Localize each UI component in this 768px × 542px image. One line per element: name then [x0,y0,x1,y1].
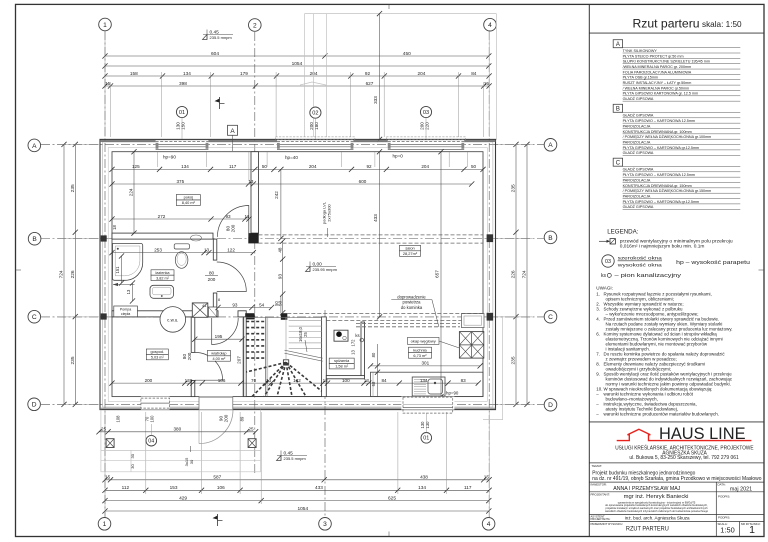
svg-text:13: 13 [364,378,370,383]
dimension chain left col2 235/226/235 [70,142,78,407]
dimension chain top row2 1054 [102,61,491,69]
svg-text:okap węglowy: okap węglowy [411,339,436,344]
svg-text:–: – [596,402,599,407]
svg-text:220: 220 [425,122,430,130]
north arrow bottom [213,514,223,526]
svg-text:204: 204 [417,71,425,76]
svg-text:134: 134 [418,485,426,490]
svg-text:PODPIS:: PODPIS: [718,515,730,519]
axis circle C left [28,310,41,323]
bathtub drain arrow [113,283,135,286]
svg-text:50: 50 [471,164,477,169]
axis circle A right [544,139,557,152]
svg-text:93: 93 [277,274,282,280]
svg-text:hp=0: hp=0 [393,154,404,159]
svg-text:200: 200 [208,277,216,282]
svg-text:13: 13 [248,179,254,184]
svg-text:hp – wysokość parapetu: hp – wysokość parapetu [676,260,750,266]
legend window symbol [602,255,750,268]
cwu boiler circle [160,307,186,333]
dim 301 kitchen [368,361,483,369]
kitchen sink [412,377,445,396]
wiatrolap label [207,350,230,361]
svg-text:272: 272 [158,214,166,219]
entrance door arc [199,410,233,444]
svg-text:242: 242 [274,191,279,199]
svg-text:224: 224 [129,188,134,196]
svg-text:– pion kanalizacyjny: – pion kanalizacyjny [615,273,682,279]
svg-text:13: 13 [351,350,356,355]
dim 48/93/50 hall [277,239,285,316]
svg-text:UWAGI:: UWAGI: [596,286,613,291]
svg-text:1: 1 [749,524,755,536]
svg-text:195: 195 [215,334,223,339]
svg-text:01: 01 [179,110,185,116]
dim 50 rot above C [274,296,281,313]
window mark circle 03 [420,106,432,129]
svg-text:13: 13 [323,378,329,383]
svg-text:03: 03 [605,259,611,265]
svg-text:PŁYTA GIPSOWO – KARTONOWA 12.5: PŁYTA GIPSOWO – KARTONOWA 12.5mm [623,119,695,123]
svg-text:13: 13 [126,289,131,294]
dimension chain left col1 724 [59,142,67,407]
axis circle B right [544,231,557,244]
svg-text:625: 625 [388,495,396,501]
right extension lines [496,144,532,404]
wall layers table A [613,40,740,101]
svg-text:106: 106 [218,378,226,383]
axis circle D right [544,398,557,411]
svg-text:–: – [596,392,599,397]
wall pilasters [101,234,493,320]
svg-text:wiatrołap: wiatrołap [211,352,226,356]
svg-text:380: 380 [173,427,181,432]
svg-text:15: 15 [105,475,111,480]
axis line B [41,238,544,240]
svg-text:207: 207 [236,356,241,364]
svg-text:433: 433 [373,214,378,222]
axis line C [41,316,544,318]
legend vent symbol [599,239,733,249]
svg-text:PAROIZOLACJA: PAROIZOLACJA [623,178,651,182]
podloga LVL note [321,201,331,237]
svg-text:25: 25 [303,332,308,337]
axis circle B left [28,232,41,245]
interior chain 253/13/122 [109,247,256,255]
svg-text:235: 235 [70,356,76,364]
axis circle 1 top [99,18,112,31]
extension lines bottom [105,412,489,516]
svg-text:TYNK SILIKONOWY: TYNK SILIKONOWY [623,49,658,53]
window 01 top wall [156,140,209,151]
svg-text:PŁYTA STEICO PROTECT gr.50 mm: PŁYTA STEICO PROTECT gr.50 mm [623,54,684,58]
bathtub [112,244,142,281]
svg-text:30: 30 [130,453,135,458]
wall tag A box [228,125,238,151]
svg-text:398: 398 [179,81,187,86]
dimension chain bottom row2 [102,485,491,493]
axis circle 4 top [484,18,497,31]
pokoj label [176,195,200,206]
title Rzut parteru [589,17,764,34]
hp=90 kitchen [446,391,459,396]
left extension lines [58,144,99,404]
door lazienka arc [217,262,247,292]
svg-text:724: 724 [522,270,528,278]
svg-text:FOLIA PAROIZOLACYJNA ALUMINIOW: FOLIA PAROIZOLACYJNA ALUMINIOWA [623,70,692,74]
okap weglowy label [408,337,460,348]
svg-text:1: 1 [103,22,107,29]
svg-text:179: 179 [240,71,248,76]
axis circle A left [28,139,41,152]
svg-text:hp=40: hp=40 [285,155,298,160]
svg-text:3: 3 [323,521,327,528]
svg-text:226: 226 [70,270,76,278]
interior chain row y169 [109,164,485,172]
svg-text:PAROIZOLACJA: PAROIZOLACJA [623,194,651,198]
svg-text:PRZEDMIOT RYSUNKU:: PRZEDMIOT RYSUNKU: [591,522,624,526]
svg-text:2: 2 [253,22,257,29]
svg-text:A: A [230,128,235,135]
window mark circle 01 [176,106,188,129]
washbasin [150,285,174,298]
svg-text:6,73 m²: 6,73 m² [413,353,427,358]
svg-text:1,58 m²: 1,58 m² [335,365,349,369]
window leader lines [182,118,426,139]
svg-text:szerokość okna: szerokość okna [618,255,663,260]
door pokoj arc [217,206,248,237]
panel divider [588,4,590,536]
svg-text:02: 02 [312,111,318,117]
svg-text:3.: 3. [596,307,600,312]
svg-text:93: 93 [225,214,231,219]
svg-text:A: A [548,142,553,149]
svg-text:1:50: 1:50 [720,525,734,534]
north arrow top [215,97,225,109]
window sills dashed [276,137,466,140]
svg-text:gospod.: gospod. [151,350,165,354]
svg-text:587: 587 [213,475,221,480]
porch steps [101,410,261,472]
dimension chain right col2 724 [522,142,530,407]
svg-text:1.: 1. [596,292,600,297]
svg-text:204: 204 [421,164,429,169]
uwagi notes text [596,292,733,417]
floor air channel dashed [287,313,483,326]
svg-text:450: 450 [403,51,411,57]
axis circle 2 top [249,19,262,32]
svg-text:pokój: pokój [184,195,193,200]
bottom interior chain [109,378,481,386]
axis circle 4 bottom [482,518,495,531]
dim 8 tiny [218,298,220,302]
svg-text:c.w.u.: c.w.u. [167,317,178,322]
svg-text:122: 122 [227,247,235,252]
axis circle 3 bottom [319,518,332,531]
svg-text:48: 48 [277,247,282,253]
svg-text:/ WEŁNA MINERALNA PAROC gr.50m: / WEŁNA MINERALNA PAROC gr.50mm [623,86,690,90]
svg-text:130: 130 [425,421,430,429]
svg-text:do kominka: do kominka [401,305,423,310]
svg-text:Rzut parteru: Rzut parteru [632,17,699,31]
svg-text:C: C [548,314,553,321]
svg-text:1054: 1054 [292,61,303,67]
svg-text:4: 4 [487,521,491,528]
chimney vent x-box 41 [192,303,208,317]
svg-text:wszelkich obiektów budowlanych: wszelkich obiektów budowlanych inżyniers… [605,509,709,513]
salon label [400,245,421,256]
svg-text:ciepła: ciepła [121,312,130,316]
door gospod arc [195,352,223,380]
svg-text:/ POMIĘDZY WEŁNA DŹWIĘKOCHŁONN: / POMIĘDZY WEŁNA DŹWIĘKOCHŁONNA gr.150mm [623,188,712,193]
level marker salon 0.00 [306,261,338,272]
chain 93/54 at C [215,302,274,310]
svg-text:/ POMIĘDZY WEŁNA DŹWIĘKOCHŁONN: / POMIĘDZY WEŁNA DŹWIĘKOCHŁONNA gr.100mm [623,134,712,139]
axis circle 1 bottom [98,518,111,531]
svg-text:PROJEKTANT:: PROJEKTANT: [591,492,611,496]
svg-text:15: 15 [484,475,490,480]
svg-text:mgr inż. Henryk Baniecki: mgr inż. Henryk Baniecki [624,494,689,500]
svg-text:13: 13 [204,247,210,252]
porch dim chain [96,415,258,435]
svg-text:wysokość okna: wysokość okna [618,262,663,267]
svg-text:15: 15 [105,81,111,86]
svg-text:inż. bud. arch. Agnieszka Skuz: inż. bud. arch. Agnieszka Skuza [625,515,690,520]
svg-text:01: 01 [423,436,429,442]
svg-text:235: 235 [70,184,76,192]
window mark circle 04 [144,415,156,446]
svg-text:C: C [32,314,37,321]
window 02 top wall [277,140,353,151]
svg-text:80: 80 [371,352,376,357]
svg-text:200: 200 [187,352,192,360]
svg-text:200: 200 [224,414,229,422]
svg-text:235.95 mnpm: 235.95 mnpm [313,267,338,272]
svg-text:04: 04 [148,439,154,445]
svg-text:226: 226 [511,270,517,278]
extension lines top [105,30,489,137]
svg-text:1: 1 [103,521,107,528]
svg-text:PAROIZOLACJA: PAROIZOLACJA [623,124,651,128]
svg-text:106: 106 [217,485,225,490]
dim 242 salon [274,167,283,241]
svg-text:54: 54 [259,302,265,307]
exterior walls [100,139,496,409]
svg-text:9: 9 [190,378,193,383]
interior chain 375/13 [109,179,474,187]
porch posts [106,439,256,448]
svg-text:PAROIZOLACJA: PAROIZOLACJA [623,140,651,144]
title block [589,422,764,537]
svg-text:PŁYTA GIPSOWO – KARTONOWA gr.1: PŁYTA GIPSOWO – KARTONOWA gr.12.5mm [623,200,700,204]
svg-text:100: 100 [342,378,350,383]
dim 195 wiatrolap [192,334,245,342]
window mark circle 02 [309,107,321,130]
svg-text:GŁADŹ GIPSOWA: GŁADŹ GIPSOWA [623,96,654,101]
svg-text:134: 134 [420,378,428,383]
svg-text:70: 70 [251,378,257,383]
dim 18 rot [112,225,117,230]
wall layers table B [613,104,740,155]
svg-text:100: 100 [149,415,154,423]
dimension chain top row4 15/398/627/15 [102,81,491,89]
toilet [174,244,189,268]
svg-text:200: 200 [230,224,235,232]
svg-text:PODPIS:: PODPIS: [718,494,730,498]
svg-text:8.: 8. [596,362,600,367]
svg-text:4: 4 [488,22,492,29]
interior extension lines [158,152,468,181]
svg-text:GŁADŹ GIPSOWA: GŁADŹ GIPSOWA [623,204,654,209]
svg-text:200: 200 [145,378,153,383]
kitchen hood okap [459,332,483,359]
svg-text:627: 627 [366,81,374,86]
svg-text:łazienka: łazienka [156,271,171,275]
door lazienka label [205,271,218,282]
svg-text:8: 8 [218,298,220,302]
svg-text:/WEŁNA MINERALNA PAROC gr. 200: /WEŁNA MINERALNA PAROC gr. 200mm [623,65,692,69]
svg-text:433: 433 [315,485,323,490]
svg-text:80: 80 [209,271,215,276]
svg-text:A: A [616,42,620,48]
svg-text:TEMAT:: TEMAT: [592,464,603,468]
svg-text:68: 68 [371,381,376,386]
dimension chain bottom row3 429/625 [102,495,491,503]
svg-text:B: B [616,107,620,113]
svg-text:235: 235 [511,356,517,364]
svg-text:125: 125 [132,164,140,169]
svg-text:89: 89 [240,416,245,421]
svg-text:150: 150 [181,122,186,130]
svg-text:15: 15 [484,81,490,86]
svg-text:D: D [32,402,37,409]
svg-text:D: D [548,402,553,409]
svg-text:28,27m²: 28,27m² [403,251,418,256]
gospod label [146,349,168,360]
svg-text:7.: 7. [596,352,600,357]
svg-text:108: 108 [116,415,121,423]
stove [334,330,348,341]
svg-text:LEGENDA:: LEGENDA: [607,228,639,235]
svg-text:8,40 m²: 8,40 m² [182,200,196,205]
dim 80/68 kitchen [371,344,380,397]
svg-text:4.: 4. [596,317,600,322]
svg-text:333: 333 [373,96,378,104]
svg-text:83: 83 [461,378,467,383]
svg-text:4,00 m²: 4,00 m² [212,357,226,361]
window 04 gospod [141,397,170,410]
svg-text:235.5 mnpm: 235.5 mnpm [210,35,233,40]
svg-text:235.5 mnpm: 235.5 mnpm [284,456,307,461]
roof outline above [300,14,503,420]
dimension chain top row3 [102,71,491,79]
dim 207 stairs [236,317,243,397]
svg-text:HAUS LINE: HAUS LINE [659,425,746,443]
pompa ciepla box [114,306,138,317]
svg-text:134: 134 [183,71,191,76]
dimension chain bottom row4 1054 [102,506,491,514]
svg-text:hp=90: hp=90 [446,391,459,396]
svg-text:hp=90: hp=90 [163,155,176,160]
svg-text:1054: 1054 [297,506,308,512]
dim 433 salon [373,149,382,319]
svg-text:117: 117 [464,485,472,490]
level marker top 0.45 [203,29,234,40]
svg-text:134: 134 [181,164,189,169]
svg-text:50: 50 [262,164,268,169]
window 03 top wall [388,140,464,151]
svg-text:KONSTRUKCJA DREWNIANA gr. 100m: KONSTRUKCJA DREWNIANA gr. 100mm [623,130,692,134]
svg-text:84: 84 [471,71,477,76]
fireplace kominek [462,314,485,328]
svg-text:spiżarnia: spiżarnia [334,359,350,363]
svg-text:PŁYTA GIPSOWO – KARTONOWA 12.5: PŁYTA GIPSOWO – KARTONOWA 12.5mm [623,173,695,177]
svg-text:25: 25 [248,427,254,432]
svg-text:604: 604 [211,51,219,57]
stairs label 16x18 [298,326,308,352]
svg-text:84: 84 [381,378,387,383]
bathroom radiator [191,235,202,241]
door entrance label [219,414,229,422]
svg-text:PŁYTA GIPSOWO KARTONOWA gr. 12: PŁYTA GIPSOWO KARTONOWA gr. 12.5 mm [623,92,698,96]
svg-text:kuchnia: kuchnia [413,347,427,352]
svg-text:172: 172 [351,339,356,347]
svg-text:93: 93 [232,302,238,307]
svg-text:5,03 m²: 5,03 m² [151,356,165,360]
svg-text:KONSTRUKCJA DREWNIANA gr. 150m: KONSTRUKCJA DREWNIANA gr. 150mm [623,184,692,188]
svg-text:3,82 m²: 3,82 m² [156,276,170,280]
beam over salon dashed [259,235,484,243]
svg-text:41: 41 [202,303,207,308]
svg-text:13: 13 [266,378,272,383]
spizarnia label [329,358,354,369]
wall layers table C [613,158,740,209]
svg-text:–: – [596,412,599,417]
svg-text:maj 2021: maj 2021 [730,486,752,492]
svg-text:92: 92 [365,71,371,76]
door pokoj label [225,224,235,232]
legenda header [607,228,639,235]
lazienka label [151,270,174,281]
interior chain 272/93/11 [109,214,251,222]
legend ks symbol [601,273,682,279]
entrance door opening [199,397,233,410]
svg-text:ks: ks [355,333,359,338]
svg-text:03: 03 [423,110,429,116]
svg-text:ks: ks [601,273,607,279]
svg-text:375: 375 [176,179,184,184]
svg-text:B: B [548,235,553,242]
axis line A [41,143,544,145]
svg-text:GŁADŹ GIPSOWA: GŁADŹ GIPSOWA [623,113,654,118]
svg-text:PŁYTA GIPSOWO – KARTONOWA gr.1: PŁYTA GIPSOWO – KARTONOWA gr.12.5mm [623,146,700,150]
svg-text:11: 11 [245,214,250,219]
svg-text:PŁYTA OSB gr.15mm: PŁYTA OSB gr.15mm [623,76,658,80]
svg-text:253: 253 [154,247,162,252]
svg-text:SŁUPKI KONSTRUKCYJNE SZKIELETU: SŁUPKI KONSTRUKCYJNE SZKIELETU 195/45 mm [623,60,710,64]
dimension chain right col1 235/226/235 [511,142,519,407]
hp labels top wall [163,154,403,161]
axis line 3 [324,310,326,518]
dimension chain top row1 604/450 [102,51,491,59]
svg-text:9.: 9. [596,372,600,377]
svg-text:235: 235 [511,184,517,192]
svg-text:skala: 1:50: skala: 1:50 [702,20,742,29]
kitchen counter [371,372,484,396]
svg-text:30: 30 [130,464,135,469]
svg-text:C: C [616,161,621,167]
svg-text:25: 25 [101,427,107,432]
